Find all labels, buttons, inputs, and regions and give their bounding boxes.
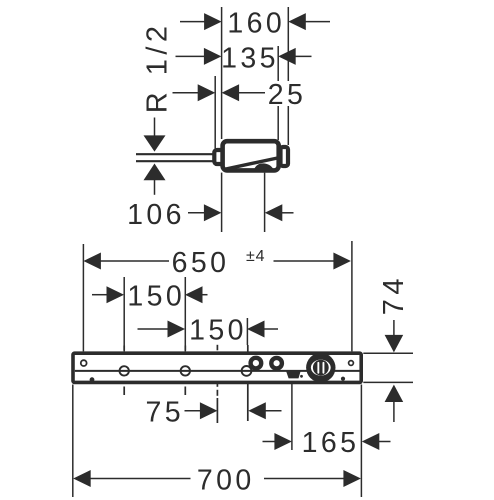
svg-text:25: 25 [268,79,307,111]
svg-text:700: 700 [197,464,255,496]
svg-text:150: 150 [127,280,185,312]
svg-text:75: 75 [145,396,184,428]
svg-text:160: 160 [227,7,285,39]
svg-text:650: 650 [172,247,230,279]
svg-text:135: 135 [221,42,279,74]
svg-text:74: 74 [378,274,410,315]
svg-text:150: 150 [189,314,247,346]
svg-text:106: 106 [127,199,185,231]
svg-text:165: 165 [302,427,360,459]
svg-text:R 1/2: R 1/2 [141,21,173,113]
svg-text:±4: ±4 [246,248,265,265]
